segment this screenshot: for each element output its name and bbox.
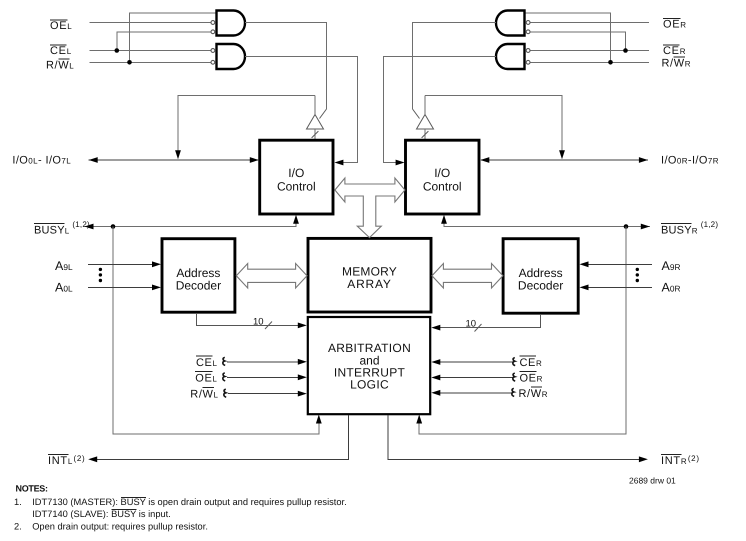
overline CE-R <box>663 44 680 46</box>
ellipsis dots right address <box>636 268 639 283</box>
svg-text:10: 10 <box>466 319 477 330</box>
bubble G2L input 2 <box>211 60 215 64</box>
overline OE-R <box>663 17 681 19</box>
junction dot R/W-L branch <box>127 60 132 65</box>
wire G2R output to right I/O Control <box>384 57 497 163</box>
svg-text:IDT7140 (SLAVE): BUSY is input: IDT7140 (SLAVE): BUSY is input. <box>32 509 171 519</box>
wire CE-L branch to gate G1L lower input <box>117 32 211 51</box>
wire G1L output diagonal into buffer <box>320 109 327 119</box>
wire CE-L to arbitration <box>227 361 303 363</box>
AND gate G2R (write enable right) <box>496 44 525 69</box>
wire OE-R pin to gate G1R input <box>530 22 649 24</box>
svg-text:Decoder: Decoder <box>518 278 563 292</box>
svg-text:CEL: CEL <box>196 357 218 369</box>
overline R/W-L <box>58 58 69 60</box>
arrowhead 10-bus right into arbitration <box>431 325 440 331</box>
bubble G2L input 1 <box>211 49 215 53</box>
wire right read data line <box>425 96 562 156</box>
svg-text:CER: CER <box>520 357 543 369</box>
svg-text:Open drain output: requires pu: Open drain output: requires pullup resis… <box>32 521 208 531</box>
overline CE-L at arbitration <box>196 355 213 357</box>
box Address Decoder right <box>503 239 578 314</box>
box Arbitration and Interrupt Logic <box>308 317 430 414</box>
arrowhead BUSY-L into left I/O Control bottom <box>293 215 299 224</box>
arrowhead R/W-L into arbitration <box>298 391 307 397</box>
svg-text:2.: 2. <box>14 521 22 531</box>
wire BUSY-R down to arbitration <box>419 227 626 435</box>
arrowhead INT-R out (right) <box>639 456 648 462</box>
bus arrow decoder-L to memory <box>236 264 307 289</box>
arrowhead I/O-R into right I/O Control <box>480 157 489 163</box>
wire buffer U1R input from I/O Control <box>424 129 426 140</box>
arrowhead BUSY-R out (right) <box>641 224 650 230</box>
overline INT-L <box>48 454 69 456</box>
arrowhead OE-L into arbitration <box>298 374 307 380</box>
squiggle CE-R <box>513 358 515 366</box>
arrowhead I/O-L out (left) <box>89 157 98 163</box>
bus slash below buffer U1R <box>422 131 429 138</box>
AND gate G1R (read enable right) <box>496 11 525 36</box>
overline BUSY note 2 <box>111 508 136 510</box>
bus slash 10 right <box>475 324 482 332</box>
svg-text:A9R: A9R <box>662 259 681 273</box>
svg-text:I/O: I/O <box>288 166 304 180</box>
arrowhead A9-L into decoder <box>152 261 161 267</box>
arrowhead R/W-R into arbitration <box>431 390 440 396</box>
overline BUSY-R <box>661 223 691 225</box>
buffer U1L output triangle <box>307 115 324 130</box>
arrowhead A0-R into decoder <box>580 285 589 291</box>
junction dot BUSY-L <box>111 224 116 229</box>
svg-text:NOTES:: NOTES: <box>16 484 49 494</box>
bubble G1R input 2 <box>526 30 530 34</box>
svg-text:CEL: CEL <box>50 45 72 57</box>
svg-text:A0L: A0L <box>55 281 73 295</box>
bus slash below buffer U1L <box>312 131 319 138</box>
wire BUSY-L net <box>85 216 297 227</box>
wire 10-bit bus decoder-L to arbitration <box>197 313 303 325</box>
svg-text:I/O: I/O <box>434 166 450 180</box>
wire INT-R from arbitration to pin <box>388 415 644 459</box>
box Memory Array <box>308 238 431 312</box>
box Address Decoder left <box>162 239 235 313</box>
overline BUSY-L <box>34 223 64 225</box>
arrowhead G2L into left I/O Control <box>334 160 343 166</box>
overline CE-R at arbitration <box>519 355 536 357</box>
wire G1R output diagonal into buffer <box>413 109 420 119</box>
svg-text:LOGIC: LOGIC <box>350 378 389 392</box>
bus slash 10 left <box>265 322 272 330</box>
junction dot CE-R branch <box>623 48 628 53</box>
arrowhead A0-L into decoder <box>152 285 161 291</box>
overline R/W-L at arbitration <box>203 387 214 389</box>
wire A9-R address line <box>583 263 652 265</box>
junction dot R/W-R branch <box>608 60 613 65</box>
wire CE-L pin to gate G2L input <box>90 50 211 52</box>
bus arrow I/O to I/O and memory (T shape) <box>335 178 405 238</box>
overline INT-R <box>661 454 682 456</box>
box I/O Control left <box>260 140 333 214</box>
bubble G1L input 1 <box>211 21 215 25</box>
svg-text:ARRAY: ARRAY <box>347 277 391 291</box>
wire R/W-L to arbitration <box>228 393 303 395</box>
bubble G2R input 2 <box>526 60 530 64</box>
svg-text:A9L: A9L <box>55 259 73 273</box>
svg-text:IDT7130 (MASTER): BUSY is open: IDT7130 (MASTER): BUSY is open drain out… <box>32 497 347 507</box>
wire I/O-L pin line <box>89 159 259 161</box>
wire R/W-R branch up to gate G1R top input <box>525 13 611 62</box>
arrowhead BUSY-R into right I/O Control bottom <box>441 215 447 224</box>
svg-text:A0R: A0R <box>662 281 681 295</box>
wire OE-R to arbitration <box>435 377 514 379</box>
wire buffer U1L input from I/O Control <box>314 129 316 140</box>
wire G1R output to right buffer enable <box>413 23 497 110</box>
wire R/W-L branch up to gate G1L top input <box>130 13 217 62</box>
arrowhead BUSY-L into arbitration bottom <box>316 415 322 424</box>
wire CE-R to arbitration <box>435 361 514 363</box>
svg-text:Decoder: Decoder <box>176 278 221 292</box>
arrowhead A9-R into decoder <box>580 261 589 267</box>
arrowhead 10-bus left into arbitration <box>298 323 307 329</box>
wire buffer U1L apex up <box>314 96 316 115</box>
buffer U1R output triangle <box>417 115 434 130</box>
svg-text:I/O0L- I/O7L: I/O0L- I/O7L <box>12 154 71 166</box>
wire A0-L address line <box>88 286 157 288</box>
overline OE-L <box>50 19 68 21</box>
svg-text:1.: 1. <box>14 497 22 507</box>
overline OE-R at arbitration <box>519 371 536 373</box>
wire I/O-R pin line <box>481 159 648 161</box>
wire R/W-L pin to gate G2L input <box>90 61 211 63</box>
svg-text:2689 drw 01: 2689 drw 01 <box>629 476 676 486</box>
overline R/W-R at arbitration <box>531 386 542 388</box>
svg-text:OEL: OEL <box>50 20 72 32</box>
junction dot BUSY-R <box>624 224 629 229</box>
arrowhead OE-R into arbitration <box>431 375 440 381</box>
overline BUSY note 1 <box>121 496 146 498</box>
wire R/W-R pin to gate G2R input <box>530 61 649 63</box>
arrowhead BUSY-L out (left) <box>85 224 94 230</box>
svg-text:R/WR: R/WR <box>519 388 549 400</box>
wire R/W-R to arbitration <box>435 392 513 394</box>
svg-text:R/WR: R/WR <box>662 57 692 69</box>
wire G1L output to left buffer enable <box>245 23 327 110</box>
arrowhead INT-L out (left) <box>88 456 97 462</box>
svg-text:I/O0R-I/O7R: I/O0R-I/O7R <box>661 154 719 166</box>
svg-text:10: 10 <box>253 317 264 328</box>
svg-text:OEL: OEL <box>195 372 217 384</box>
wire OE-L pin to gate G1L input <box>90 22 211 24</box>
overline R/W-R <box>674 56 685 58</box>
arrowhead G2R into right I/O Control <box>396 160 405 166</box>
ellipsis dots left address <box>99 268 102 283</box>
wire buffer U1R apex up <box>424 96 426 115</box>
arrowhead CE-L into arbitration <box>298 359 307 365</box>
bus arrow decoder-R to memory <box>432 264 503 289</box>
AND gate G1L (read enable left) <box>217 11 246 36</box>
wire 10-bit bus decoder-R to arbitration <box>435 314 541 328</box>
wire BUSY-L down to arbitration <box>113 227 319 435</box>
arrowhead read data onto I/O-L line <box>175 150 181 159</box>
squiggle OE-R <box>513 373 515 381</box>
wire CE-R branch to gate G1R lower input <box>530 32 626 51</box>
wire G2L output to left I/O Control <box>245 57 358 163</box>
arrowhead I/O-R out (right) <box>639 157 648 163</box>
arrowhead I/O-L into left I/O Control <box>250 157 259 163</box>
arrowhead CE-R into arbitration <box>431 359 440 365</box>
wire BUSY-R net <box>444 216 650 227</box>
wire A0-R address line <box>583 286 652 288</box>
wire OE-L to arbitration <box>227 376 303 378</box>
box I/O Control right <box>406 140 480 214</box>
svg-text:OER: OER <box>663 19 687 31</box>
svg-text:Control: Control <box>277 180 316 194</box>
svg-text:OER: OER <box>520 373 543 385</box>
AND gate G2L (write enable left) <box>217 44 246 69</box>
bubble G2R input 1 <box>526 49 530 53</box>
squiggle OE-L <box>223 373 225 381</box>
overline CE-L <box>50 44 67 46</box>
bubble G1L input 2 <box>211 30 215 34</box>
svg-text:R/WL: R/WL <box>46 59 74 71</box>
bubble G1R input 1 <box>526 21 530 25</box>
svg-text:CER: CER <box>663 45 686 57</box>
wire INT-L from arbitration to pin <box>93 415 349 459</box>
svg-text:R/WL: R/WL <box>190 389 218 401</box>
squiggle CE-L <box>223 357 225 365</box>
wire CE-R pin to gate G2R input <box>530 50 649 52</box>
junction dot CE-L branch <box>115 48 120 53</box>
svg-text:Control: Control <box>423 180 462 194</box>
squiggle R/W-R <box>512 388 514 396</box>
arrowhead read data onto I/O-R line <box>559 150 565 159</box>
overline OE-L at arbitration <box>195 370 212 372</box>
wire left read data line <box>178 96 315 156</box>
wire A9-L address line <box>88 263 157 265</box>
arrowhead BUSY-R into arbitration bottom <box>416 415 422 424</box>
squiggle R/W-L <box>224 389 226 397</box>
